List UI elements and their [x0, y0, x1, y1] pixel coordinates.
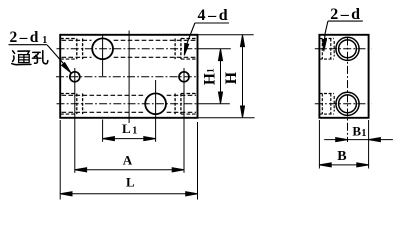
svg-text:H: H — [223, 71, 240, 84]
svg-text:4–d: 4–d — [198, 7, 231, 24]
svg-text:B: B — [337, 149, 346, 164]
svg-text:2–d: 2–d — [330, 6, 362, 23]
svg-text:H1: H1 — [202, 68, 219, 85]
svg-text:2–d: 2–d — [10, 29, 41, 46]
svg-text:L: L — [126, 174, 135, 189]
svg-text:L: L — [122, 121, 131, 136]
svg-text:A: A — [123, 152, 133, 167]
svg-text:1: 1 — [361, 128, 366, 139]
svg-text:1: 1 — [42, 35, 47, 46]
svg-text:B: B — [352, 124, 361, 139]
svg-text:1: 1 — [132, 126, 137, 137]
